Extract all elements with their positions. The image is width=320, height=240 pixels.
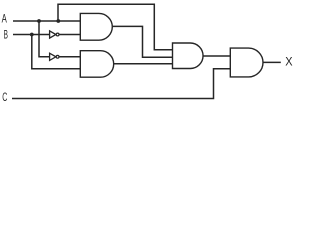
wire A horizontal <box>13 20 80 22</box>
svg-text:C: C <box>2 92 7 104</box>
AND gate G4 lower <box>80 51 113 77</box>
inverter G2 on A tap line <box>50 53 59 60</box>
wire A tap up and across top to middle gate <box>58 4 173 50</box>
AND gate G5 middle (3-input) <box>173 43 204 69</box>
wire G6 output to X <box>263 61 281 63</box>
wire C horizontal and up to final gate <box>12 69 230 99</box>
wire A tap down to inverter 2 <box>39 21 50 57</box>
node junction on A (tap to inverter 2) <box>37 19 41 23</box>
wire G4 output to middle gate input 3 <box>114 63 173 65</box>
node junction on B (tap down to lower AND gate) <box>30 33 34 37</box>
inverter G1 on B line <box>50 31 59 38</box>
wire inverter G1 output to top AND gate <box>59 34 80 36</box>
AND gate G6 final <box>230 48 263 77</box>
wire B horizontal <box>13 34 50 36</box>
svg-text:A: A <box>2 13 7 25</box>
wire G5 output to final gate <box>203 55 230 57</box>
svg-text:B: B <box>4 29 8 41</box>
wire G3 output down to middle gate input 2 <box>112 26 172 57</box>
AND gate G3 top <box>80 13 112 40</box>
node junction on A (tap to top wire) <box>56 19 60 23</box>
svg-text:X: X <box>285 57 293 69</box>
wire inverter G2 output to lower AND gate <box>59 56 80 58</box>
wire B tap down to lower AND gate input <box>32 35 81 69</box>
